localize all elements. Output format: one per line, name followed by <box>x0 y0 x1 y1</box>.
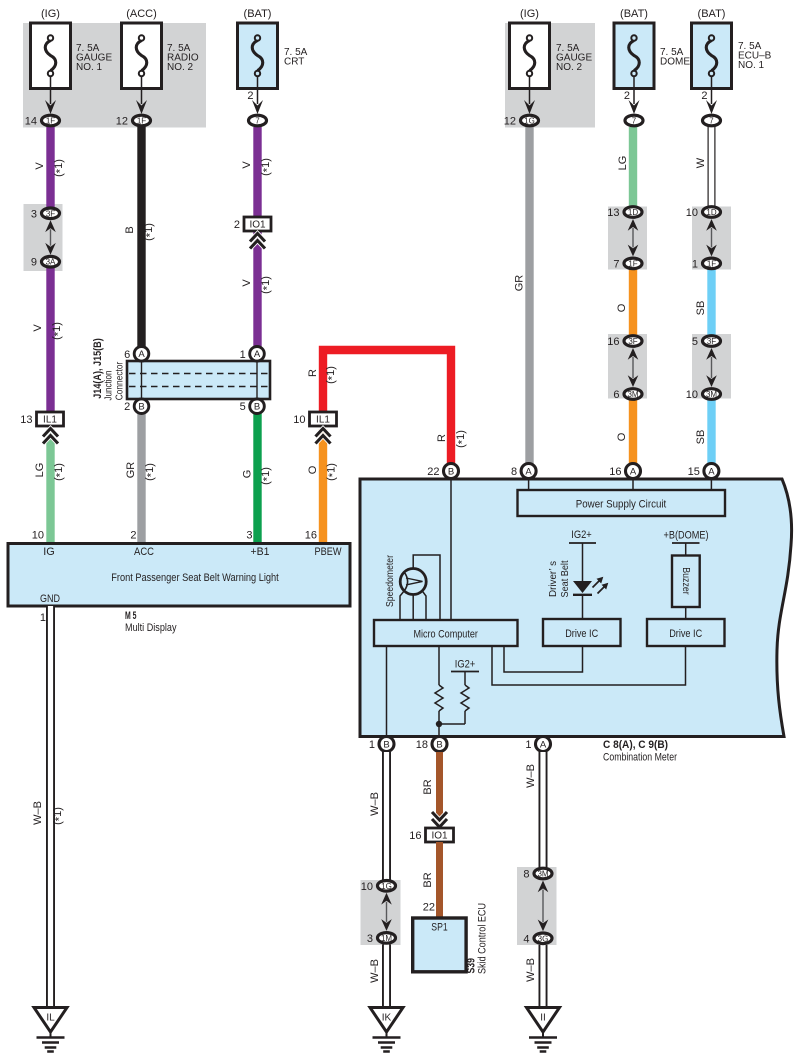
gray panel connector 1G/1M bottom <box>361 880 401 945</box>
svg-text:1F: 1F <box>628 259 637 268</box>
wire O col5 1F to 3F <box>629 269 637 336</box>
gray panel connector 3M/3G bottom <box>517 867 557 945</box>
svg-text:Drive IC: Drive IC <box>669 628 702 640</box>
junction pin 1 A <box>240 347 265 362</box>
svg-text:W–B: W–B <box>369 959 381 983</box>
connector 14 1F <box>25 115 60 127</box>
chevron below IL1 col1 <box>43 429 58 444</box>
chevron below IO1 col3 <box>250 234 265 249</box>
drive IC 2 box <box>647 619 725 646</box>
svg-text:NO. 1: NO. 1 <box>76 62 103 73</box>
speedometer wires to micro computer <box>400 591 405 621</box>
svg-text:A: A <box>630 466 637 477</box>
svg-text:3F: 3F <box>628 337 637 346</box>
connector 5 3F <box>692 336 721 348</box>
svg-text:B: B <box>254 402 260 413</box>
svg-text:5: 5 <box>692 336 698 348</box>
svg-text:12: 12 <box>116 116 128 128</box>
junction pin 2 B <box>124 399 149 414</box>
svg-text:(BAT): (BAT) <box>244 8 272 20</box>
wire G green col3 junction B to M5 +B1 <box>253 412 261 545</box>
wire O col5 3M to pin 16A <box>629 399 637 465</box>
svg-text:ACC: ACC <box>134 546 154 558</box>
connector pair arrow col1 <box>45 220 56 254</box>
fuse GAUGE NO.1 (IG) <box>31 8 113 114</box>
svg-text:1G: 1G <box>381 882 392 891</box>
svg-text:V: V <box>34 162 46 170</box>
connector 7 1F <box>613 258 642 270</box>
chevron below IL1 pin10 <box>316 429 331 444</box>
svg-text:SB: SB <box>695 301 707 316</box>
svg-text:II: II <box>540 1013 546 1024</box>
connector 3 3F <box>31 208 60 220</box>
svg-text:Speedometer: Speedometer <box>384 555 396 607</box>
connector 12 1G <box>504 115 539 127</box>
svg-text:22: 22 <box>423 902 435 914</box>
wire V purple col3 fuse CRT to junction A <box>253 127 261 348</box>
svg-text:M 5: M 5 <box>125 610 137 622</box>
svg-text:3: 3 <box>246 530 252 542</box>
wire LG col1 IL1 to M5 IG <box>46 429 54 545</box>
svg-text:13: 13 <box>20 414 32 426</box>
svg-text:V: V <box>241 161 253 169</box>
svg-text:C 8(A), C 9(B): C 8(A), C 9(B) <box>603 739 668 751</box>
svg-text:(ACC): (ACC) <box>126 8 157 20</box>
junction IO1 pin 2 col3 <box>234 217 271 231</box>
wire micro computer to drive IC1 <box>504 646 583 672</box>
junction dot <box>436 721 442 727</box>
wire V purple col1 3A to IL1 <box>46 267 54 413</box>
svg-text:Driver’ s: Driver’ s <box>547 561 559 597</box>
svg-text:3M: 3M <box>627 390 638 399</box>
svg-text:GR: GR <box>514 275 526 292</box>
wire pin15 to PSC <box>710 480 712 490</box>
svg-text:15: 15 <box>688 466 700 478</box>
svg-text:DOME: DOME <box>660 57 690 68</box>
svg-text:10: 10 <box>32 530 44 542</box>
connector 1 1F <box>692 258 721 270</box>
gray panel connector 1D/1F column6 <box>692 207 731 270</box>
junction IL1 pin 10 <box>293 412 336 426</box>
CM pin 16 A <box>609 464 640 479</box>
svg-text:1F: 1F <box>137 117 146 126</box>
svg-text:3G: 3G <box>538 934 549 943</box>
svg-text:2: 2 <box>124 401 130 413</box>
svg-text:B: B <box>124 226 136 233</box>
gray panel behind GAUGE NO.2 fuse <box>505 23 595 128</box>
svg-text:IL: IL <box>46 1013 55 1024</box>
svg-text:(*1): (*1) <box>52 807 66 825</box>
wire V purple col1 fuse to 3F <box>46 127 54 208</box>
junction IL1 pin 13 col1 <box>20 412 63 426</box>
connector pair arrow col5 lower <box>628 348 639 387</box>
svg-text:1: 1 <box>692 258 698 270</box>
wire W-B pin1A to 3M <box>539 752 548 868</box>
svg-text:1D: 1D <box>628 208 638 217</box>
svg-text:O: O <box>307 465 319 474</box>
svg-text:14: 14 <box>25 116 37 128</box>
svg-text:2: 2 <box>701 90 707 102</box>
svg-text:Micro Computer: Micro Computer <box>413 629 478 641</box>
svg-text:3M: 3M <box>706 390 717 399</box>
svg-text:13: 13 <box>607 207 619 219</box>
svg-text:(*1): (*1) <box>143 223 157 241</box>
CM pin 1 B <box>369 737 394 752</box>
svg-text:12: 12 <box>504 116 516 128</box>
drive IC 1 box <box>543 619 621 646</box>
wire BR IO1 to SP1 <box>436 842 443 918</box>
svg-text:7: 7 <box>632 117 637 126</box>
svg-text:18: 18 <box>416 739 428 751</box>
fuse RADIO NO.2 (ACC) <box>122 8 199 114</box>
svg-text:B: B <box>436 739 442 750</box>
svg-text:4: 4 <box>523 933 529 945</box>
svg-text:3F: 3F <box>707 337 716 346</box>
wire R red IL1 to combination meter pin 22 <box>323 350 451 465</box>
svg-text:Front Passenger Seat Belt Warn: Front Passenger Seat Belt Warning Light <box>111 572 279 584</box>
resistor R right <box>464 672 466 686</box>
svg-text:1F: 1F <box>46 117 55 126</box>
svg-text:SB: SB <box>695 430 707 445</box>
svg-text:LG: LG <box>34 463 46 478</box>
connector 10 3M <box>686 389 721 401</box>
svg-text:A: A <box>540 739 547 750</box>
svg-text:GR: GR <box>125 462 137 479</box>
svg-text:1: 1 <box>240 349 246 361</box>
svg-text:(*1): (*1) <box>144 463 158 481</box>
gray panel connector 1D/1F column5 <box>608 207 647 270</box>
fuse GAUGE NO.2 (IG) <box>510 8 593 114</box>
svg-text:(BAT): (BAT) <box>698 8 726 20</box>
svg-text:A: A <box>525 466 532 477</box>
CM pin 1 A <box>525 737 550 752</box>
svg-text:Combination Meter: Combination Meter <box>603 752 677 764</box>
svg-text:1: 1 <box>369 739 375 751</box>
svg-text:IG: IG <box>43 546 55 558</box>
svg-text:(*1): (*1) <box>53 463 67 481</box>
svg-text:1G: 1G <box>524 117 535 126</box>
svg-text:R: R <box>307 369 319 377</box>
power supply circuit box <box>518 490 726 516</box>
M5 Multi Display box <box>8 544 350 607</box>
buzzer box <box>672 556 700 608</box>
svg-text:CRT: CRT <box>284 57 304 68</box>
connector 7 (CRT) <box>249 115 267 126</box>
svg-text:2: 2 <box>624 90 630 102</box>
wire SB col6 1F to 3F <box>707 269 715 336</box>
wire W-B 3G to ground II <box>539 945 548 1008</box>
SP1 skid control ECU box <box>413 918 466 972</box>
svg-text:Buzzer: Buzzer <box>680 567 692 595</box>
svg-text:9: 9 <box>31 257 37 269</box>
svg-text:1F: 1F <box>707 259 716 268</box>
svg-text:+B1: +B1 <box>251 546 270 558</box>
svg-text:NO. 2: NO. 2 <box>167 62 194 73</box>
wire W-B 1M to ground IK <box>382 945 391 1008</box>
connector 7 (ECU-B) <box>703 115 721 126</box>
svg-text:16: 16 <box>409 830 421 842</box>
svg-text:+B(DOME): +B(DOME) <box>664 530 709 542</box>
svg-text:16: 16 <box>305 530 317 542</box>
connector 7 (DOME) <box>625 115 643 126</box>
svg-text:PBEW: PBEW <box>315 546 343 558</box>
CM pin 22 B <box>427 464 458 479</box>
junction pin 6 A <box>124 347 149 362</box>
wire BR pin18B to IO1 <box>436 752 443 828</box>
junction IO1 pin 16 <box>409 828 453 842</box>
svg-text:(*1): (*1) <box>325 366 339 384</box>
svg-text:IK: IK <box>382 1013 392 1024</box>
connector 12 1F <box>116 115 151 127</box>
wire SB col6 3M to pin 15A <box>707 399 715 465</box>
svg-text:7: 7 <box>709 117 714 126</box>
connector pair arrow col5 upper <box>628 219 639 256</box>
wire W-B col1 GND to ground <box>46 606 55 1008</box>
svg-text:W: W <box>695 157 707 168</box>
svg-text:(*1): (*1) <box>53 159 67 177</box>
svg-text:SP1: SP1 <box>431 922 447 934</box>
svg-text:10: 10 <box>686 389 698 401</box>
svg-text:1: 1 <box>525 739 531 751</box>
svg-text:IG2+: IG2+ <box>455 659 476 671</box>
svg-text:W–B: W–B <box>369 792 381 816</box>
wire pin22 down to micro computer <box>450 480 452 620</box>
LED driver seat belt <box>573 577 608 595</box>
svg-text:B: B <box>138 402 144 413</box>
svg-text:16: 16 <box>607 336 619 348</box>
svg-text:GND: GND <box>40 593 60 605</box>
speedometer gauge <box>400 569 426 595</box>
svg-text:(IG): (IG) <box>41 8 60 20</box>
wire B black col2 fuse to junction A <box>137 127 145 348</box>
svg-text:Power Supply Circuit: Power Supply Circuit <box>576 499 667 511</box>
svg-text:Drive IC: Drive IC <box>565 628 598 640</box>
svg-text:5: 5 <box>240 401 246 413</box>
svg-text:(*1): (*1) <box>260 276 274 294</box>
svg-text:Connector: Connector <box>113 361 125 400</box>
svg-text:22: 22 <box>427 466 439 478</box>
svg-text:(*1): (*1) <box>260 158 274 176</box>
svg-text:2: 2 <box>130 530 136 542</box>
CM pin 8 A <box>511 464 536 479</box>
svg-text:8: 8 <box>511 466 517 478</box>
micro computer box <box>374 620 518 646</box>
resistor R left <box>438 646 440 685</box>
connector 3 1M <box>367 933 396 945</box>
svg-text:NO. 1: NO. 1 <box>738 60 765 71</box>
svg-text:IL1: IL1 <box>316 415 330 426</box>
svg-text:BR: BR <box>422 872 434 887</box>
connector 6 3M <box>613 389 642 401</box>
wire pin8 to PSC <box>528 480 530 490</box>
svg-text:7: 7 <box>255 117 260 126</box>
ground II <box>527 1008 560 1052</box>
svg-text:3F: 3F <box>46 209 55 218</box>
svg-text:2: 2 <box>234 219 240 231</box>
svg-text:3: 3 <box>367 933 373 945</box>
svg-text:(BAT): (BAT) <box>620 8 648 20</box>
junction connector J14(A) J15(B) box <box>127 361 270 399</box>
svg-text:(*1): (*1) <box>260 467 274 485</box>
svg-text:W–B: W–B <box>525 958 537 982</box>
svg-text:IG2+: IG2+ <box>571 529 592 541</box>
svg-text:R: R <box>436 434 448 442</box>
svg-text:1M: 1M <box>381 934 392 943</box>
connector 13 1D <box>607 207 642 219</box>
svg-text:W–B: W–B <box>32 801 44 825</box>
fuse ECU-B NO.1 (BAT) <box>692 8 772 114</box>
connector 10 1G <box>361 881 396 893</box>
svg-text:V: V <box>32 324 44 332</box>
chevron above IO1 <box>432 812 447 827</box>
connector pair arrow 3M/3G <box>538 881 549 932</box>
svg-text:1: 1 <box>40 612 46 624</box>
svg-text:Seat Belt: Seat Belt <box>559 560 571 597</box>
svg-text:16: 16 <box>609 466 621 478</box>
svg-text:IL1: IL1 <box>43 415 57 426</box>
connector 4 3G <box>523 933 552 945</box>
svg-text:1D: 1D <box>706 208 716 217</box>
wire micro computer to pin 1B <box>386 646 388 736</box>
connector pair arrow col6 upper <box>706 219 717 256</box>
svg-text:6: 6 <box>124 349 130 361</box>
svg-text:(*1): (*1) <box>455 430 469 448</box>
svg-text:10: 10 <box>686 207 698 219</box>
svg-text:10: 10 <box>361 881 373 893</box>
svg-text:10: 10 <box>293 414 305 426</box>
CM pin 15 A <box>688 464 719 479</box>
wire W-B pin1B to 1G <box>382 752 391 880</box>
svg-text:O: O <box>616 303 628 312</box>
connector 9 3A <box>31 256 60 268</box>
connector pair arrow 1G/1M <box>381 893 392 931</box>
gray panel connector 3F/3M column5 <box>608 334 647 399</box>
gray panel connector 3F/3A column1 <box>24 204 63 271</box>
svg-text:3A: 3A <box>46 258 56 267</box>
svg-text:BR: BR <box>422 779 434 794</box>
wire micro computer to drive IC2 <box>492 646 686 685</box>
svg-text:W–B: W–B <box>525 764 537 788</box>
fuse DOME (BAT) <box>614 8 690 114</box>
svg-text:IO1: IO1 <box>431 831 448 842</box>
svg-text:O: O <box>616 432 628 441</box>
wire W white col6 fuse ECU-B to 1D <box>708 127 716 207</box>
svg-text:(IG): (IG) <box>520 8 539 20</box>
connector 8 3M <box>523 868 552 880</box>
svg-text:3: 3 <box>31 208 37 220</box>
svg-text:LG: LG <box>617 156 629 171</box>
gray panel connector 3F/3M column6 <box>692 334 731 399</box>
svg-text:IO1: IO1 <box>249 220 266 231</box>
svg-text:B: B <box>448 466 454 477</box>
wire O orange IL1 to M5 PBEW <box>319 429 327 545</box>
wire pin16 to PSC <box>632 480 634 490</box>
svg-text:2: 2 <box>247 90 253 102</box>
svg-text:A: A <box>138 349 145 360</box>
wire LG col5 fuse DOME to 1D <box>629 127 637 207</box>
svg-text:8: 8 <box>523 869 529 881</box>
connector pair arrow col6 lower <box>706 348 717 387</box>
wire GR col4 fuse 1G to pin 8A <box>525 127 533 465</box>
gray panel behind IG/ACC fuses <box>23 23 206 128</box>
svg-text:A: A <box>254 349 261 360</box>
connector 16 3F <box>607 336 642 348</box>
fuse CRT (BAT) <box>238 8 308 114</box>
combination meter box C8(A) C9(B) <box>360 479 792 737</box>
svg-text:B: B <box>383 739 389 750</box>
svg-text:7: 7 <box>613 258 619 270</box>
ground IK <box>370 1008 403 1052</box>
svg-text:Multi Display: Multi Display <box>125 622 177 634</box>
svg-text:6: 6 <box>613 389 619 401</box>
svg-text:G: G <box>242 470 254 479</box>
svg-text:Skid Control ECU: Skid Control ECU <box>476 903 488 974</box>
svg-text:(*1): (*1) <box>326 463 340 481</box>
svg-text:V: V <box>241 279 253 287</box>
svg-text:NO. 2: NO. 2 <box>556 62 583 73</box>
junction pin 5 B <box>240 399 265 414</box>
svg-text:3M: 3M <box>537 870 548 879</box>
connector 10 1D <box>686 207 721 219</box>
ground IL <box>34 1008 67 1052</box>
svg-text:(*1): (*1) <box>51 322 65 340</box>
CM pin 18 B <box>416 737 447 752</box>
svg-text:A: A <box>708 466 715 477</box>
wire GR col2 junction B to M5 ACC <box>137 412 145 545</box>
